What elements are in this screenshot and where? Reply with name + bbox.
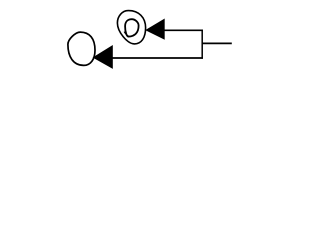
wire: tail	[202, 42, 232, 44]
arrowhead into node A	[145, 19, 165, 40]
node A inner ring sketch second pass	[124, 32, 134, 37]
node A inner ring	[125, 19, 139, 36]
node A (accepting state) outer ring	[117, 11, 145, 44]
wire: bottom branch	[112, 57, 203, 59]
arrowhead into node B	[93, 45, 113, 69]
node B ellipse	[68, 32, 95, 65]
wire: vertical trunk	[201, 30, 203, 59]
wire: top branch	[164, 29, 203, 31]
